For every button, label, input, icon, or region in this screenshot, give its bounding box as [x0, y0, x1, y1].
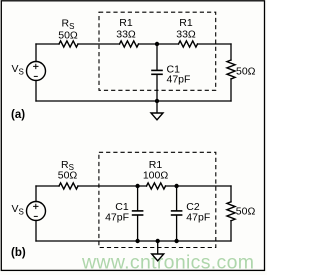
wire: (a) load branch lower: [230, 79, 232, 101]
node: C2 top junction (b): [174, 184, 178, 188]
resistor R1 (a, left) 33Ω: [120, 41, 139, 47]
wire: (a) top rail segment R1 right to load: [198, 43, 232, 45]
svg-text:47pF: 47pF: [105, 211, 129, 223]
source VS (a): [27, 62, 46, 81]
wire: (a) load branch upper: [230, 44, 232, 60]
svg-text:50Ω: 50Ω: [236, 66, 256, 78]
resistor RS (b) 50Ω: [59, 183, 78, 189]
svg-text:47pF: 47pF: [167, 74, 191, 86]
svg-text:www.cntronics.com: www.cntronics.com: [81, 251, 254, 273]
dashed network box (b): [99, 152, 216, 247]
wire: (b) top rail segment RS to R1: [78, 185, 147, 187]
source VS (b): [27, 202, 46, 221]
wire: (b) left branch below VS: [35, 221, 37, 242]
wire: (a) top rail segment R1 left to R1 right: [139, 43, 179, 45]
dashed network box (a): [99, 12, 216, 90]
resistor R1 (a, right) 33Ω: [179, 41, 198, 47]
wire: (b) load branch lower: [230, 221, 232, 241]
svg-text:R1: R1: [179, 17, 193, 29]
node: ground junction (b): [156, 239, 160, 243]
node: C1 top junction (b): [135, 184, 139, 188]
resistor RL (a) 50Ω vertical: [227, 60, 235, 79]
svg-text:47pF: 47pF: [186, 211, 210, 223]
wire: (b) top rail segment VS to RS: [36, 185, 59, 187]
capacitor C2 (b) 47pF: [176, 186, 178, 210]
ground (a): [156, 101, 158, 113]
svg-text:(a): (a): [11, 109, 25, 121]
wire: (b) bottom rail: [36, 240, 231, 242]
svg-text:(b): (b): [11, 247, 26, 259]
wire: (b) load branch upper: [230, 186, 232, 202]
capacitor C1 (b) 47pF: [137, 186, 139, 210]
node: C1 bottom junction (b): [135, 239, 139, 243]
wire: (b) top rail segment R1 to load: [166, 185, 232, 187]
resistor R1 (b) 100Ω: [147, 183, 166, 189]
wire: (a) top rail segment VS to RS: [36, 43, 59, 45]
resistor RS (a) 50Ω: [59, 41, 78, 47]
wire: (a) bottom rail: [36, 100, 231, 102]
svg-text:50Ω: 50Ω: [58, 170, 78, 182]
resistor RL (b) 50Ω vertical: [227, 202, 235, 221]
capacitor C1 (a) 47pF: [156, 44, 158, 70]
node: R1-R1-C1 junction (a): [155, 42, 159, 46]
svg-text:50Ω: 50Ω: [58, 29, 78, 41]
svg-text:33Ω: 33Ω: [176, 29, 196, 41]
svg-text:R1: R1: [119, 17, 133, 29]
node: C2 bottom junction (b): [174, 239, 178, 243]
svg-text:100Ω: 100Ω: [143, 170, 169, 182]
wire: (a) left branch above VS: [35, 44, 37, 62]
ground (b): [157, 241, 159, 254]
wire: (b) left branch above VS: [35, 186, 37, 202]
node: bottom junction (a): [155, 99, 159, 103]
svg-text:33Ω: 33Ω: [116, 29, 136, 41]
wire: (a) left branch below VS: [35, 81, 37, 102]
svg-text:50Ω: 50Ω: [236, 206, 256, 218]
wire: (a) top rail segment RS to R1 left: [78, 43, 120, 45]
